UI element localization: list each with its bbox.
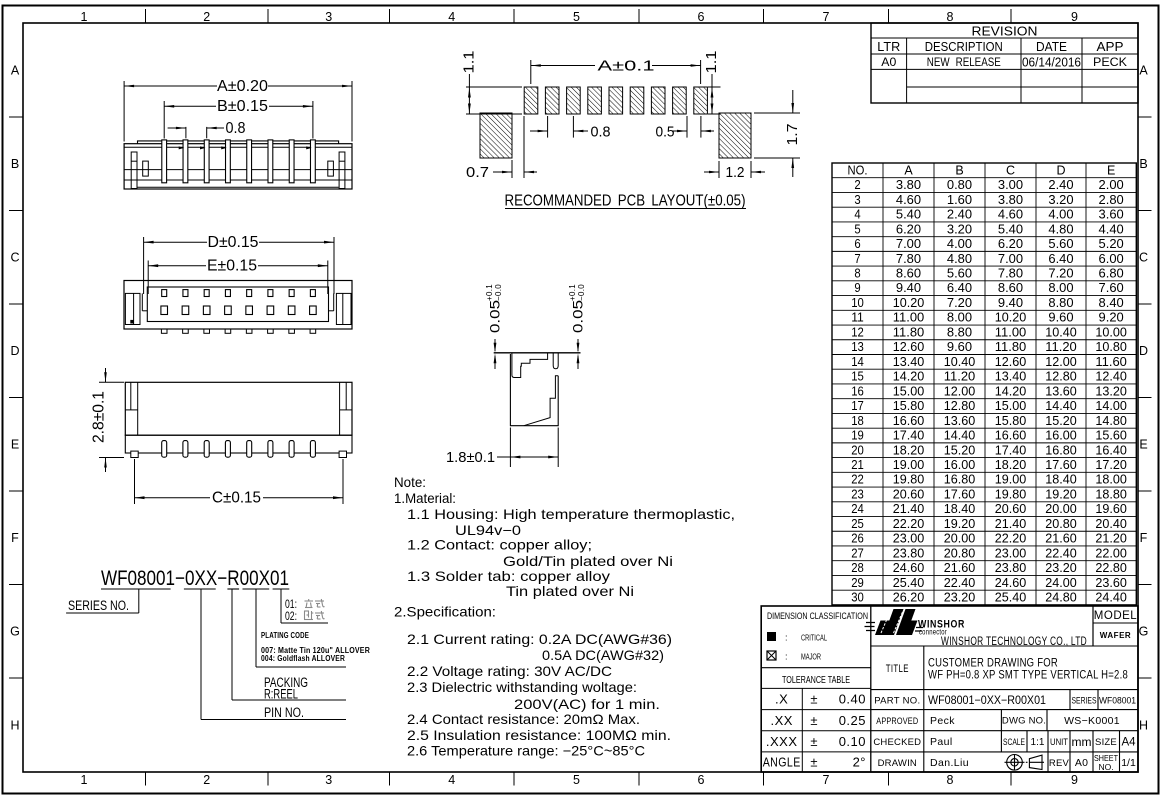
- svg-text:23.00: 23.00: [893, 532, 925, 546]
- svg-text:4.80: 4.80: [947, 252, 972, 266]
- svg-text:4.60: 4.60: [896, 193, 921, 207]
- svg-text:D: D: [1056, 163, 1065, 177]
- svg-text:3.20: 3.20: [947, 222, 972, 236]
- svg-text:1.1 Housing: High temperatu: 1.1 Housing: High temperature thermoplas…: [407, 507, 735, 522]
- svg-text:4.60: 4.60: [998, 208, 1023, 222]
- svg-text:7.80: 7.80: [896, 252, 921, 266]
- svg-text:NO.: NO.: [848, 163, 868, 177]
- front view housing body: [124, 144, 352, 189]
- svg-text:18.80: 18.80: [1095, 487, 1127, 501]
- svg-text:18.00: 18.00: [1095, 473, 1127, 487]
- grid tick marks right: [1138, 116, 1152, 118]
- svg-text:6.00: 6.00: [1099, 252, 1124, 266]
- svg-text:1.60: 1.60: [947, 193, 972, 207]
- svg-text:SERIES NO.: SERIES NO.: [68, 598, 129, 613]
- svg-text:24: 24: [851, 502, 864, 516]
- svg-text:C: C: [10, 251, 19, 265]
- svg-text:B: B: [11, 157, 19, 171]
- title block outline: [761, 606, 1138, 772]
- svg-text:26: 26: [851, 532, 864, 546]
- svg-text:SCALE: SCALE: [1003, 737, 1025, 748]
- dimension B±0.15 line and arrows: [164, 105, 216, 107]
- svg-text:17.40: 17.40: [995, 443, 1027, 457]
- svg-text:1.3 Solder tab: copper all: 1.3 Solder tab: copper alloy: [407, 569, 610, 584]
- svg-text:9.40: 9.40: [998, 296, 1023, 310]
- top view left outer clip: [125, 293, 140, 324]
- svg-text:NEW RELEASE: NEW RELEASE: [927, 55, 1001, 69]
- svg-text:0.80: 0.80: [947, 178, 972, 192]
- svg-text:3.60: 3.60: [1099, 208, 1124, 222]
- svg-text:9: 9: [1071, 10, 1078, 24]
- rev cells: [1047, 752, 1049, 772]
- svg-text:11.20: 11.20: [944, 370, 976, 384]
- svg-text:23.60: 23.60: [1095, 576, 1127, 590]
- svg-text:24.00: 24.00: [1045, 576, 1077, 590]
- svg-text:WF PH=0.8 XP SMT TYPE VER: WF PH=0.8 XP SMT TYPE VERTICAL H=2.8: [928, 670, 1128, 682]
- svg-text:7.00: 7.00: [896, 237, 921, 251]
- top view pin contacts lower row: [161, 306, 168, 315]
- svg-text:16.00: 16.00: [944, 458, 976, 472]
- side view right end cap lines: [339, 382, 341, 435]
- section dimension 1.8 label: [497, 456, 510, 458]
- section view pcb surface line: [494, 352, 581, 354]
- svg-text:8: 8: [947, 10, 954, 24]
- svg-text:1.7: 1.7: [784, 124, 801, 146]
- svg-text:PECK: PECK: [1093, 55, 1127, 69]
- svg-text:A: A: [904, 163, 913, 177]
- dimension 2.8±0.1 extension lines: [99, 381, 124, 383]
- dimension 2.8±0.1 line and arrows: [105, 368, 107, 382]
- svg-text:24.60: 24.60: [893, 561, 925, 575]
- svg-text:2.80: 2.80: [1099, 193, 1124, 207]
- svg-text:7.00: 7.00: [998, 252, 1023, 266]
- approved row: [923, 710, 925, 731]
- svg-text:A0: A0: [881, 55, 896, 69]
- svg-text:5.60: 5.60: [947, 267, 972, 281]
- grid tick marks bottom: [145, 772, 147, 786]
- svg-text:7.80: 7.80: [998, 267, 1023, 281]
- svg-text:11.00: 11.00: [995, 325, 1027, 339]
- section dimension 0.05 right arrows: [577, 339, 579, 351]
- svg-text:D: D: [10, 344, 19, 358]
- svg-text:CHECKED: CHECKED: [873, 737, 921, 748]
- svg-text:4: 4: [854, 208, 860, 222]
- svg-text:22.40: 22.40: [944, 576, 976, 590]
- svg-text:15.80: 15.80: [893, 399, 925, 413]
- title block left-right divider: [870, 606, 872, 772]
- svg-text:13: 13: [851, 340, 864, 354]
- svg-text:+0.1: +0.1: [568, 284, 577, 301]
- svg-text:8.80: 8.80: [947, 325, 972, 339]
- svg-text:.XXX: .XXX: [766, 734, 798, 749]
- series cells: [1069, 690, 1071, 710]
- side view 8 pin legs: [162, 441, 167, 458]
- svg-text:14.20: 14.20: [995, 384, 1027, 398]
- svg-text:H: H: [10, 719, 19, 733]
- svg-text:F: F: [11, 531, 19, 545]
- svg-text:7.20: 7.20: [1048, 267, 1073, 281]
- svg-text:WS−K0001: WS−K0001: [1064, 715, 1120, 727]
- svg-text:11.60: 11.60: [1095, 355, 1127, 369]
- svg-text:1.1: 1.1: [462, 51, 478, 74]
- svg-text:E: E: [1107, 163, 1115, 177]
- svg-text:4.00: 4.00: [1048, 208, 1073, 222]
- front view left clip bar: [131, 152, 137, 189]
- svg-text:22.20: 22.20: [995, 532, 1027, 546]
- svg-text:5.40: 5.40: [998, 222, 1023, 236]
- critical symbol and label: [767, 632, 776, 641]
- side view solder leg feet right: [339, 451, 346, 457]
- svg-text:2.2 Voltage rating: 30V AC: 2.2 Voltage rating: 30V AC/DC: [407, 664, 612, 679]
- svg-text:PART NO.: PART NO.: [874, 696, 920, 707]
- svg-text:±: ±: [810, 692, 817, 707]
- svg-text:19: 19: [851, 429, 864, 443]
- company logo mark: [865, 609, 924, 635]
- pin no leader line: [200, 589, 202, 720]
- top view right outer clip: [336, 293, 351, 324]
- dimension A±0.20 line and arrows: [124, 85, 217, 87]
- svg-text:A4: A4: [1121, 737, 1136, 749]
- svg-text:20.80: 20.80: [944, 546, 976, 560]
- dimension 0.8 pitch extension lines: [185, 127, 187, 138]
- svg-text:12.00: 12.00: [1045, 355, 1077, 369]
- svg-text:18.20: 18.20: [995, 458, 1027, 472]
- svg-text:9.40: 9.40: [896, 281, 921, 295]
- pcb dimension 1.7 line arrows: [792, 90, 794, 113]
- svg-text:RECOMMANDED PCB LAYOUT(±0.05): RECOMMANDED PCB LAYOUT(±0.05): [505, 193, 746, 210]
- svg-text:22.00: 22.00: [1095, 546, 1127, 560]
- svg-text:LTR: LTR: [877, 40, 900, 54]
- svg-text:13.20: 13.20: [1095, 384, 1127, 398]
- svg-text:0.7: 0.7: [466, 164, 489, 181]
- svg-text:3.00: 3.00: [998, 178, 1023, 192]
- svg-text:DIMENSION CLASSIFICATION: DIMENSION CLASSIFICATION: [767, 611, 868, 621]
- svg-text:TITLE: TITLE: [886, 663, 909, 675]
- svg-text:G: G: [10, 625, 20, 639]
- pcb dimension A±0.1 line and arrows: [531, 65, 595, 67]
- svg-text:3.80: 3.80: [896, 178, 921, 192]
- svg-text:20.60: 20.60: [995, 502, 1027, 516]
- svg-text:16.60: 16.60: [893, 414, 925, 428]
- svg-text:5.60: 5.60: [1048, 237, 1073, 251]
- svg-text:UNIT: UNIT: [1050, 737, 1068, 748]
- svg-text:APPROVED: APPROVED: [876, 716, 918, 726]
- top view left clip dot: [130, 320, 134, 324]
- svg-text:6: 6: [854, 237, 860, 251]
- svg-text:Tin plated over Ni: Tin plated over Ni: [506, 584, 634, 599]
- svg-text:16.40: 16.40: [1095, 443, 1127, 457]
- svg-text:17.40: 17.40: [893, 429, 925, 443]
- svg-text:H: H: [1139, 719, 1148, 733]
- pcb layout large pad left: [480, 113, 512, 158]
- svg-text:20.00: 20.00: [1045, 502, 1077, 516]
- svg-text:8: 8: [947, 773, 954, 787]
- svg-text:8.00: 8.00: [947, 311, 972, 325]
- svg-text:10: 10: [851, 296, 864, 310]
- svg-text:+0.1: +0.1: [485, 284, 494, 301]
- svg-text:E: E: [1139, 438, 1147, 452]
- svg-text:9.60: 9.60: [947, 340, 972, 354]
- projection angle symbol: [1005, 755, 1045, 771]
- svg-text:1.2: 1.2: [726, 164, 745, 181]
- svg-text:9.60: 9.60: [1048, 311, 1073, 325]
- svg-text:WF08001−0XX−R00X01: WF08001−0XX−R00X01: [928, 695, 1046, 707]
- svg-text:C±0.15: C±0.15: [212, 490, 261, 507]
- svg-text:D: D: [1139, 344, 1148, 358]
- svg-text:CUSTOMER DRAWING FOR: CUSTOMER DRAWING FOR: [928, 658, 1058, 670]
- svg-text:1.1: 1.1: [704, 51, 720, 74]
- pcb dimension 0.7 extension line: [523, 116, 525, 178]
- svg-text:1:1: 1:1: [1031, 737, 1045, 748]
- svg-text:A0: A0: [1075, 757, 1088, 769]
- svg-text:11.20: 11.20: [1045, 340, 1077, 354]
- svg-text:24.60: 24.60: [995, 576, 1027, 590]
- section view housing outer profile: [510, 354, 558, 426]
- svg-text:19.00: 19.00: [995, 473, 1027, 487]
- pcb dimension 1.1 right extension lines: [708, 86, 721, 88]
- svg-text:−0.0: −0.0: [494, 284, 503, 301]
- svg-text:16.80: 16.80: [944, 473, 976, 487]
- front view 8 pins: [162, 140, 167, 183]
- svg-text:21.60: 21.60: [1045, 532, 1077, 546]
- svg-text:24.40: 24.40: [1095, 591, 1127, 605]
- top view right inner bracket: [333, 293, 335, 310]
- svg-text:0.05: 0.05: [571, 300, 586, 333]
- svg-text:21: 21: [851, 458, 864, 472]
- svg-text:24.80: 24.80: [1045, 591, 1077, 605]
- svg-text:15.80: 15.80: [995, 414, 1027, 428]
- svg-text:4: 4: [448, 773, 455, 787]
- packing leader line: [231, 589, 233, 700]
- svg-text:SERIES: SERIES: [1072, 695, 1097, 706]
- front view raised top band: [138, 141, 339, 144]
- svg-text:0.8: 0.8: [226, 120, 246, 137]
- svg-text:23.20: 23.20: [944, 591, 976, 605]
- svg-text:B: B: [955, 163, 963, 177]
- svg-text:21.40: 21.40: [893, 502, 925, 516]
- svg-text:12: 12: [851, 325, 864, 339]
- svg-text:3.20: 3.20: [1048, 193, 1073, 207]
- pcb dimension 0.8 extension lines: [547, 116, 549, 138]
- svg-text:19.80: 19.80: [995, 487, 1027, 501]
- svg-text:17.20: 17.20: [1095, 458, 1127, 472]
- svg-text:2.Specification:: 2.Specification:: [394, 605, 496, 620]
- svg-text:17.60: 17.60: [944, 487, 976, 501]
- pcb dimension 0.5 arrows and label: [672, 130, 687, 132]
- svg-text:A: A: [11, 64, 20, 78]
- svg-text:19.20: 19.20: [944, 517, 976, 531]
- svg-text:21.60: 21.60: [944, 561, 976, 575]
- svg-text:2: 2: [854, 178, 860, 192]
- svg-text:REVISION: REVISION: [972, 24, 1038, 39]
- pcb dimension 1.7 extension lines: [754, 112, 800, 114]
- svg-text:18.40: 18.40: [1045, 473, 1077, 487]
- svg-text:REV: REV: [1049, 758, 1070, 769]
- svg-text:D±0.15: D±0.15: [208, 234, 259, 251]
- dimension C±0.15 line and arrows: [135, 497, 211, 499]
- svg-text:15.60: 15.60: [1095, 429, 1127, 443]
- title block right horizontal lines: [871, 645, 1138, 647]
- svg-text:9: 9: [1071, 773, 1078, 787]
- grid tick marks left: [9, 116, 23, 118]
- svg-text:Peck: Peck: [930, 715, 955, 727]
- svg-text:8.80: 8.80: [1048, 296, 1073, 310]
- svg-text:7: 7: [854, 252, 860, 266]
- orientation code leader line: [280, 589, 282, 623]
- svg-text:12.00: 12.00: [944, 384, 976, 398]
- svg-text:1/1: 1/1: [1121, 757, 1136, 769]
- svg-text::: :: [785, 652, 788, 662]
- pcb dimension 1.1 left line arrows: [468, 74, 470, 114]
- svg-text:14.40: 14.40: [944, 429, 976, 443]
- svg-text:2.4 Contact resistance: 20m: 2.4 Contact resistance: 20mΩ Max.: [407, 712, 640, 727]
- pcb layout small pads hatched: [524, 87, 538, 114]
- dimension E±0.15 line and arrows: [148, 265, 206, 267]
- svg-text:12.60: 12.60: [893, 340, 925, 354]
- svg-text:10.80: 10.80: [1095, 340, 1127, 354]
- svg-text:NO.: NO.: [1098, 762, 1113, 772]
- orientation chinese glyphs drawn as strokes: [305, 599, 314, 608]
- dwg no cells: [1000, 710, 1002, 731]
- svg-text:2.1 Current rating: 0.2A D: 2.1 Current rating: 0.2A DC(AWG#36): [407, 632, 672, 647]
- title row label: [923, 646, 925, 690]
- svg-text:13.40: 13.40: [893, 355, 925, 369]
- svg-text:10.20: 10.20: [893, 296, 925, 310]
- grid tick marks top: [145, 9, 147, 23]
- svg-text:6.20: 6.20: [998, 237, 1023, 251]
- svg-text:B±0.15: B±0.15: [217, 98, 268, 115]
- svg-text:21.40: 21.40: [995, 517, 1027, 531]
- svg-text:0.25: 0.25: [839, 713, 866, 728]
- svg-text:A±0.20: A±0.20: [217, 78, 268, 95]
- svg-text:±: ±: [810, 755, 817, 770]
- dimension D±0.15 extension lines: [143, 237, 145, 294]
- side view lower strip: [125, 435, 352, 453]
- svg-text:C: C: [1139, 251, 1148, 265]
- svg-text:02:: 02:: [285, 609, 297, 623]
- svg-text:PLATING CODE: PLATING CODE: [261, 631, 309, 640]
- svg-text:19.80: 19.80: [893, 473, 925, 487]
- svg-text:18.20: 18.20: [893, 443, 925, 457]
- svg-text:22: 22: [851, 473, 864, 487]
- svg-text:15.00: 15.00: [995, 399, 1027, 413]
- svg-text:13.40: 13.40: [995, 370, 1027, 384]
- dimension B±0.15 extension lines: [163, 101, 165, 139]
- pcb dimension 1.2 extension lines: [718, 161, 720, 178]
- svg-text:4.40: 4.40: [1099, 222, 1124, 236]
- svg-text:MODEL: MODEL: [1094, 610, 1138, 622]
- svg-text:28: 28: [851, 561, 864, 575]
- svg-text:20.80: 20.80: [1045, 517, 1077, 531]
- svg-text:E±0.15: E±0.15: [207, 258, 257, 275]
- major symbol and label: [767, 651, 776, 660]
- svg-text:5.40: 5.40: [896, 208, 921, 222]
- svg-text:7: 7: [823, 10, 830, 24]
- svg-text:14.80: 14.80: [1095, 414, 1127, 428]
- svg-text:5: 5: [573, 773, 580, 787]
- section view right lower step and diagonal: [524, 376, 558, 426]
- top view housing outline: [124, 281, 352, 330]
- svg-text:E: E: [11, 438, 19, 452]
- svg-text:2: 2: [203, 773, 210, 787]
- svg-text:4.80: 4.80: [1048, 222, 1073, 236]
- svg-text:18.40: 18.40: [944, 502, 976, 516]
- side view solder leg feet left: [131, 451, 138, 457]
- front view right small window: [328, 161, 334, 176]
- svg-text:17.60: 17.60: [1045, 458, 1077, 472]
- svg-text:0.40: 0.40: [839, 692, 866, 707]
- svg-text:15.20: 15.20: [1045, 414, 1077, 428]
- svg-text:14.20: 14.20: [893, 370, 925, 384]
- svg-text:10.00: 10.00: [1095, 325, 1127, 339]
- svg-text:0.5A DC(AWG#32): 0.5A DC(AWG#32): [542, 648, 664, 663]
- svg-text:1: 1: [81, 773, 88, 787]
- svg-text:WF08001−0XX−R00X01: WF08001−0XX−R00X01: [101, 567, 289, 590]
- svg-text:2.00: 2.00: [1099, 178, 1124, 192]
- svg-text:06/14/2016: 06/14/2016: [1022, 55, 1081, 70]
- svg-text:11.80: 11.80: [995, 340, 1027, 354]
- dimension E±0.15 extension lines: [147, 261, 149, 295]
- pcb dimension 1.1 right line arrows: [711, 74, 713, 114]
- svg-text:10.40: 10.40: [1045, 325, 1077, 339]
- svg-text:8.60: 8.60: [998, 281, 1023, 295]
- svg-text:MAJOR: MAJOR: [801, 652, 821, 662]
- svg-text:A±0.1: A±0.1: [598, 58, 655, 75]
- svg-text:7.60: 7.60: [1099, 281, 1124, 295]
- svg-text:14.40: 14.40: [1045, 399, 1077, 413]
- front view left small window: [143, 161, 149, 176]
- svg-text:6: 6: [698, 10, 705, 24]
- svg-text:±: ±: [810, 734, 817, 749]
- svg-text:F: F: [1140, 531, 1148, 545]
- section dimension 0.05 left arrows: [494, 339, 496, 351]
- series no leader line: [138, 589, 140, 613]
- dimension 0.8 pitch arrows and label: [168, 127, 186, 129]
- pcb dimension 1.2 arrows and label: [704, 171, 719, 173]
- svg-text:2.40: 2.40: [947, 208, 972, 222]
- svg-text:6.40: 6.40: [947, 281, 972, 295]
- svg-text:8.00: 8.00: [1048, 281, 1073, 295]
- svg-text:B: B: [1139, 157, 1147, 171]
- svg-text:15.00: 15.00: [893, 384, 925, 398]
- svg-text:30: 30: [851, 591, 864, 605]
- tolerance table header separator: [761, 667, 871, 669]
- svg-text:27: 27: [851, 546, 864, 560]
- svg-text:22.40: 22.40: [1045, 546, 1077, 560]
- svg-text:1.Material:: 1.Material:: [394, 491, 456, 506]
- svg-text:23.00: 23.00: [995, 546, 1027, 560]
- svg-text:2.5 Insulation resistance:: 2.5 Insulation resistance: 100MΩ min.: [407, 728, 671, 743]
- svg-text:13.60: 13.60: [944, 414, 976, 428]
- svg-text:R:REEL: R:REEL: [264, 687, 298, 702]
- svg-text:004: Goldflash ALLOVER: 004: Goldflash ALLOVER: [261, 654, 345, 663]
- pcb dimension 0.5 extension lines: [686, 116, 688, 138]
- svg-text:Note:: Note:: [394, 475, 426, 490]
- svg-text:20: 20: [851, 443, 864, 457]
- svg-text:12.40: 12.40: [1095, 370, 1127, 384]
- pcb dimension 0.8 arrows and label: [530, 130, 548, 132]
- tolerance table grid lines: [761, 687, 871, 689]
- svg-text:25.40: 25.40: [995, 591, 1027, 605]
- section view right slot with rounded bottom: [553, 353, 558, 369]
- pin dimension table: [832, 163, 1136, 605]
- svg-text:20.00: 20.00: [944, 532, 976, 546]
- svg-text:Gold/Tin plated over Ni: Gold/Tin plated over Ni: [503, 554, 673, 569]
- svg-text:15: 15: [851, 370, 864, 384]
- svg-text:16.00: 16.00: [1045, 429, 1077, 443]
- svg-text:.XX: .XX: [770, 713, 792, 728]
- svg-text:26.20: 26.20: [893, 591, 925, 605]
